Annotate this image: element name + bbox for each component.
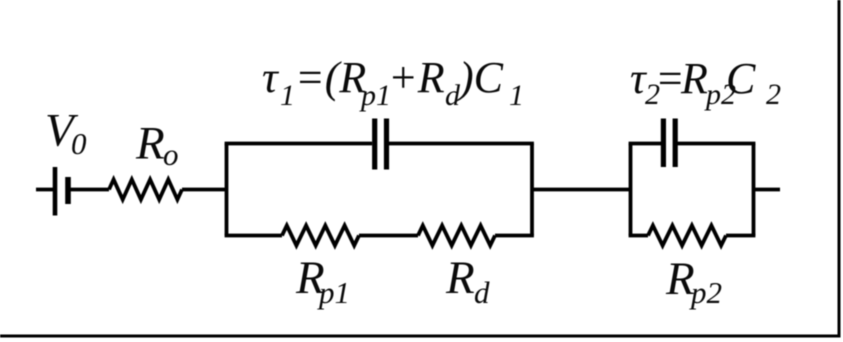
wire: box1 top rail left bbox=[225, 142, 372, 146]
battery V0 bbox=[55, 167, 68, 216]
label Ro bbox=[135, 118, 179, 173]
wire: box2 top rail right bbox=[678, 142, 756, 146]
wire: box1 bottom rail bbox=[225, 234, 534, 238]
svg-text:1: 1 bbox=[280, 79, 295, 112]
node: box1 left edge bbox=[225, 144, 229, 236]
label V0 bbox=[45, 105, 87, 162]
wire bbox=[36, 188, 53, 192]
wire: box2 bottom rail bbox=[629, 234, 756, 238]
node: box1 right edge bbox=[530, 144, 534, 236]
svg-text:p1: p1 bbox=[359, 79, 391, 112]
resistor Rp2 bbox=[648, 226, 726, 246]
svg-text:=(R: =(R bbox=[295, 53, 366, 102]
capacitor C2 bbox=[663, 119, 675, 168]
label Rp2 bbox=[665, 253, 722, 310]
svg-text:o: o bbox=[163, 137, 179, 172]
svg-text:2: 2 bbox=[766, 78, 781, 111]
label tau2 formula bbox=[630, 54, 781, 111]
svg-text:R: R bbox=[680, 54, 708, 103]
svg-text:d: d bbox=[474, 275, 490, 310]
label tau1 formula bbox=[262, 53, 524, 112]
svg-text:)C: )C bbox=[456, 53, 504, 102]
label Rd bbox=[445, 252, 490, 310]
svg-text:+R: +R bbox=[388, 53, 445, 102]
wire bbox=[71, 188, 110, 192]
svg-text:C: C bbox=[726, 54, 756, 103]
label Rp1 bbox=[295, 252, 350, 310]
node: box2 right edge bbox=[752, 144, 756, 236]
svg-text:R: R bbox=[135, 118, 165, 170]
capacitor C1 bbox=[375, 119, 387, 170]
wire bbox=[182, 188, 228, 192]
resistor Ro bbox=[109, 180, 182, 200]
resistor Rp1 bbox=[282, 226, 359, 246]
svg-text:τ: τ bbox=[262, 53, 280, 102]
svg-text:1: 1 bbox=[509, 79, 524, 112]
svg-text:0: 0 bbox=[71, 126, 87, 161]
svg-text:R: R bbox=[445, 252, 475, 304]
wire: middle link bbox=[532, 188, 630, 192]
svg-text:p1: p1 bbox=[317, 275, 350, 310]
svg-text:p2: p2 bbox=[689, 275, 722, 310]
resistor Rd bbox=[418, 226, 495, 246]
wire: box2 top rail left bbox=[629, 142, 661, 146]
wire: output stub bbox=[754, 188, 781, 192]
node: box2 left edge bbox=[629, 144, 633, 236]
wire: box1 top rail right bbox=[389, 142, 534, 146]
